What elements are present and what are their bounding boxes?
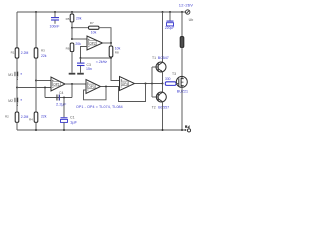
resistor R3: [34, 48, 38, 58]
svg-text:20k: 20k: [75, 42, 81, 46]
node bottom rail x162.5: [162, 129, 164, 131]
wire emitter node to T2: [162, 84, 164, 93]
capacitor C5 220uF: [165, 12, 174, 30]
svg-text:OP4: OP4: [122, 82, 129, 86]
node rail x182: [181, 11, 183, 13]
node rail x36: [35, 11, 37, 13]
wire T2 base: [152, 96, 158, 98]
node rail x162.5: [162, 11, 164, 13]
svg-text:T2: T2: [152, 106, 156, 110]
svg-text:22k: 22k: [41, 115, 47, 119]
node x72 y27.7: [71, 27, 73, 29]
wire T1 base: [152, 66, 158, 68]
wire node to R7: [72, 27, 89, 29]
svg-text:2.2M: 2.2M: [21, 115, 29, 119]
wire T1 collector column: [162, 12, 164, 62]
svg-text:R2: R2: [5, 115, 9, 119]
wire R3 down to node: [35, 58, 37, 80]
wire R9 to T3 drain: [181, 48, 183, 77]
node rail x170: [169, 11, 171, 13]
transistor T3 MOSFET: [172, 72, 188, 94]
svg-text:BC557: BC557: [158, 106, 169, 110]
op-amp OP4: [120, 77, 135, 91]
capacitor C1: [61, 116, 78, 125]
svg-text:2.2M: 2.2M: [21, 51, 29, 55]
wire x72 node to plus input node: [71, 28, 73, 39]
op-amp OP3: [86, 80, 101, 94]
svg-text:BC547: BC547: [158, 56, 169, 60]
node bottom rail x36: [35, 129, 37, 131]
wire node to M2: [16, 88, 18, 98]
svg-text:≈ 2kHz: ≈ 2kHz: [96, 60, 107, 64]
wire OP2 output: [103, 42, 112, 44]
wire rail to R9: [181, 12, 183, 37]
wire node to R8 bottom node: [81, 57, 112, 59]
svg-text:20k: 20k: [76, 17, 82, 21]
transistor T2: [152, 92, 170, 110]
node at x17 y87.5: [16, 87, 18, 89]
wire R7 to output column: [99, 28, 111, 43]
wire top supply rail: [17, 11, 185, 13]
capacitor C2 100nF: [50, 12, 60, 29]
svg-text:10k: 10k: [91, 30, 97, 34]
svg-text:OP2: OP2: [89, 41, 96, 45]
node x111 y58.5: [110, 57, 112, 59]
wire node to R4: [35, 81, 37, 113]
supply terminal: [179, 3, 193, 22]
wire R6 to ground: [71, 52, 73, 73]
resistor R2: [15, 112, 19, 122]
wire M2 to R2: [16, 102, 18, 112]
svg-text:220µF: 220µF: [165, 26, 174, 30]
svg-text:T3: T3: [172, 72, 176, 76]
svg-text:R5: R5: [66, 17, 70, 21]
transistor T1: [152, 56, 169, 72]
wire C1 to bottom rail: [63, 122, 65, 130]
wire node to OP2 input: [72, 38, 87, 40]
wire bottom ground rail: [17, 129, 186, 131]
node C1 tap x64 y97.5: [63, 97, 65, 99]
node base column x152 y83.5: [151, 83, 153, 85]
resistor R5: [70, 14, 74, 22]
speaker terminal LS: [185, 125, 191, 132]
svg-text:R3: R3: [41, 49, 45, 53]
wire T3 source to bottom rail: [181, 87, 183, 130]
wire OP3 feedback loop: [84, 87, 107, 100]
wire OP4 output to transistors: [135, 83, 163, 85]
wire OP1 feedback loop left: [44, 88, 46, 98]
op-amp OP2: [87, 36, 103, 50]
wire down to C1: [63, 98, 65, 118]
svg-text:R6: R6: [66, 46, 70, 50]
op-amp OP1: [51, 77, 65, 91]
svg-text:T1: T1: [152, 56, 156, 60]
resistor R9: [180, 37, 184, 48]
svg-text:Ub: Ub: [189, 18, 194, 22]
svg-text:100nF: 100nF: [50, 25, 60, 29]
wire rail to R5: [71, 12, 73, 14]
resistor R8: [109, 46, 113, 57]
node bottom rail x64: [63, 129, 65, 131]
wire R4 to bottom rail: [35, 122, 37, 130]
resistor R10 gate 330: [165, 77, 176, 86]
svg-text:1µF: 1µF: [70, 119, 78, 124]
wire R2 to bottom rail: [16, 122, 18, 130]
resistor R7: [89, 26, 100, 29]
wire OP3 output: [101, 86, 120, 88]
svg-text:R7: R7: [90, 21, 94, 25]
svg-text:R1: R1: [11, 50, 15, 54]
capacitor C4 in feedback: [56, 91, 67, 107]
microphone M1: [8, 72, 22, 80]
resistor R6: [70, 43, 74, 52]
wire OP2 minus input: [81, 47, 88, 59]
svg-text:2.2µF: 2.2µF: [56, 101, 67, 106]
node OP1 out x72 y84: [71, 83, 73, 85]
wire R1 to M1: [16, 58, 18, 72]
wire OP1 feedback loop bottom: [45, 97, 72, 99]
wire base column: [151, 67, 153, 97]
wire OP1 output to OP3: [65, 83, 86, 85]
svg-text:R8: R8: [115, 51, 119, 55]
wire column x=36 rail to R3: [35, 12, 37, 48]
ground under R6: [69, 73, 76, 75]
node OP3 out x106: [105, 86, 107, 88]
node OP4 out x145.5: [145, 83, 147, 85]
wire R5 to node: [71, 22, 73, 28]
svg-text:M2: M2: [8, 99, 13, 103]
wire T1 emitter down: [162, 72, 164, 84]
svg-text:OP1 - OP4 = TL074, TL084: OP1 - OP4 = TL074, TL084: [76, 105, 123, 109]
node bottom rail x182: [181, 129, 183, 131]
node x36 y80.5: [35, 80, 37, 82]
node x162.5 y83.5: [162, 83, 164, 85]
wire node to R8: [110, 43, 112, 46]
node output x111 y43: [110, 42, 112, 44]
wire M1 to node: [16, 76, 18, 87]
wire node down to OP4 top input: [111, 58, 120, 81]
wire OP1 feedback loop right: [71, 84, 73, 98]
wire R8 to node: [110, 57, 112, 58]
microphone M2: [8, 98, 22, 106]
svg-text:OP1: OP1: [53, 82, 60, 86]
node rail x55: [54, 11, 56, 13]
svg-text:M1: M1: [8, 73, 13, 77]
svg-text:15n: 15n: [86, 67, 92, 71]
capacitor C3: [77, 58, 92, 73]
resistor R4: [34, 112, 38, 122]
svg-text:C4: C4: [59, 91, 63, 95]
wire OP1 bottom input from x17: [17, 87, 51, 89]
node feedback x45 y87.5: [44, 87, 46, 89]
node x72 y39: [71, 38, 73, 40]
wire OP4 feedback loop: [119, 84, 146, 102]
svg-text:22k: 22k: [41, 54, 47, 58]
ground under C3: [77, 73, 84, 75]
wire left column x=17 top (rail to R1): [16, 12, 18, 48]
node x80.5 y58.5: [80, 57, 82, 59]
resistor R1: [15, 48, 19, 58]
wire OP1 top input from x36: [36, 80, 51, 82]
svg-text:OP3: OP3: [88, 85, 95, 89]
wire T2 collector to bottom rail: [162, 102, 164, 130]
node rail x72: [71, 11, 73, 13]
svg-text:12-26V: 12-26V: [179, 3, 193, 8]
svg-text:330: 330: [165, 77, 171, 81]
svg-text:R4: R4: [29, 118, 33, 122]
